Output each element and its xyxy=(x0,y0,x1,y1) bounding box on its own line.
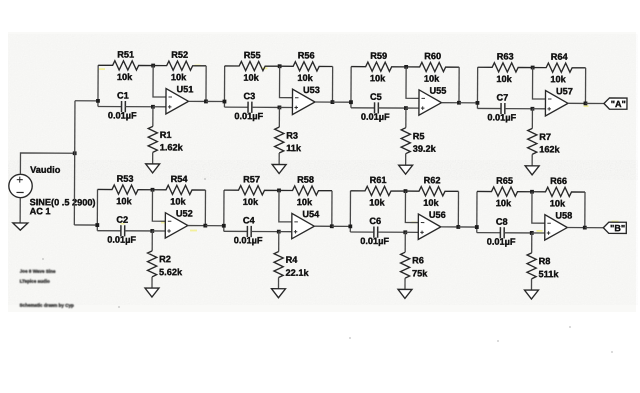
net flag "B" xyxy=(603,222,626,233)
svg-text:0.01µF: 0.01µF xyxy=(487,112,516,122)
svg-text:R57: R57 xyxy=(243,174,260,184)
wire: cap junction to U51 non-inverting input xyxy=(153,106,166,108)
node: input junction xyxy=(223,100,227,104)
svg-text:22.1k: 22.1k xyxy=(286,268,310,278)
svg-text:"B": "B" xyxy=(610,223,625,233)
svg-text:C7: C7 xyxy=(496,92,508,102)
wire: cap junction to U54 non-inverting input xyxy=(279,231,292,233)
svg-text:10k: 10k xyxy=(496,74,512,84)
wire: stage 2 output to stage 3 input (bottom row) xyxy=(332,225,350,227)
resistor R57 xyxy=(224,186,279,195)
svg-text:U54: U54 xyxy=(302,209,320,219)
node: C5/R5 junction xyxy=(404,106,408,110)
wire: stage 3 output to stage 4 input (bottom row) xyxy=(458,226,476,228)
node: C8/R8 junction xyxy=(530,231,534,235)
wire: feedback from output node to R56 xyxy=(331,66,333,102)
resistor R65 xyxy=(477,187,532,196)
svg-text:10k: 10k xyxy=(496,198,512,208)
svg-text:10k: 10k xyxy=(170,196,186,206)
svg-text:0.01µF: 0.01µF xyxy=(361,112,390,122)
svg-text:C8: C8 xyxy=(496,217,508,227)
node: C3/R3 junction xyxy=(278,106,282,110)
wire: feedback from output node to R54 xyxy=(204,190,206,226)
wire: R junction down to U53 inverting input xyxy=(279,66,292,97)
svg-text:U58: U58 xyxy=(555,210,572,220)
svg-text:10k: 10k xyxy=(243,197,259,207)
note text line 2 xyxy=(20,279,50,284)
wire: left branch vertical (R59/C5 input) xyxy=(350,67,352,108)
wire: U55 output xyxy=(441,102,458,104)
svg-text:R53: R53 xyxy=(117,174,134,184)
svg-text:U55: U55 xyxy=(430,86,447,96)
ground (R7) xyxy=(525,166,539,175)
resistor R53 xyxy=(97,185,152,194)
node: output junction xyxy=(330,224,334,228)
svg-text:C1: C1 xyxy=(117,90,129,100)
svg-text:R2: R2 xyxy=(159,254,171,264)
resistor R61 xyxy=(350,186,405,195)
node: R65/R66 junction xyxy=(530,190,534,194)
resistor R63 xyxy=(478,63,533,72)
svg-text:11k: 11k xyxy=(286,143,302,153)
note text line 1 xyxy=(20,268,56,273)
wire: feedback from output node to R64 xyxy=(584,68,586,104)
op-amp U56 xyxy=(418,214,441,240)
wire: feedback from output node to R58 xyxy=(331,191,333,227)
ground (R6) xyxy=(398,289,412,298)
voltage source Vaudio xyxy=(9,174,33,198)
svg-text:U57: U57 xyxy=(556,86,573,96)
node: input junction xyxy=(222,224,226,228)
svg-text:C6: C6 xyxy=(369,216,381,226)
node: input junction xyxy=(95,223,99,227)
node: R59/R60 junction xyxy=(404,65,408,69)
wire: left branch vertical (R65/C8 input) xyxy=(476,191,478,232)
svg-text:C2: C2 xyxy=(116,215,128,225)
capacitor C2 xyxy=(97,225,152,236)
wire: feedback from output node to R66 xyxy=(584,192,586,228)
svg-text:10k: 10k xyxy=(423,198,439,208)
node: R63/R64 junction xyxy=(531,66,535,70)
resistor R4 xyxy=(274,232,283,289)
svg-text:10k: 10k xyxy=(116,196,132,206)
wire: U58 output xyxy=(567,227,584,229)
svg-text:AC 1: AC 1 xyxy=(30,206,51,216)
svg-text:R62: R62 xyxy=(424,175,441,185)
node: C7/R7 junction xyxy=(531,107,535,111)
wire: R junction down to U58 inverting input xyxy=(532,192,545,223)
svg-text:162k: 162k xyxy=(539,144,560,154)
svg-text:10k: 10k xyxy=(171,72,187,82)
op-amp U51 xyxy=(166,89,189,115)
wire: U54 output xyxy=(314,225,331,227)
capacitor C3 xyxy=(224,102,279,113)
svg-text:R54: R54 xyxy=(171,174,189,184)
wire: left branch vertical (R57/C4 input) xyxy=(223,190,225,231)
svg-text:0.01µF: 0.01µF xyxy=(487,237,516,247)
svg-text:U52: U52 xyxy=(176,208,193,218)
capacitor C8 xyxy=(477,227,532,238)
svg-text:R60: R60 xyxy=(424,51,441,61)
wire: R junction down to U56 inverting input xyxy=(405,191,418,222)
svg-text:0.01µF: 0.01µF xyxy=(234,235,263,245)
resistor R55 xyxy=(225,61,280,70)
svg-text:R58: R58 xyxy=(297,175,314,185)
node: output junction xyxy=(204,100,208,104)
svg-text:R52: R52 xyxy=(171,50,188,60)
resistor R6 xyxy=(400,232,409,289)
svg-text:10k: 10k xyxy=(297,197,313,207)
ground (R1) xyxy=(146,164,160,173)
wire: cap junction to U57 non-inverting input xyxy=(532,108,545,110)
svg-text:R59: R59 xyxy=(370,51,387,61)
wire: feedback from output node to R60 xyxy=(458,67,460,103)
node: input junction xyxy=(348,224,352,228)
svg-text:Schematic drawn by Cyp: Schematic drawn by Cyp xyxy=(19,303,74,308)
svg-text:C3: C3 xyxy=(243,91,255,101)
capacitor C5 xyxy=(351,102,406,113)
svg-text:LTspice audio: LTspice audio xyxy=(20,279,50,284)
resistor R59 xyxy=(351,62,406,71)
note text line 3 xyxy=(19,303,74,308)
svg-text:R6: R6 xyxy=(412,255,424,265)
node: R61/R62 junction xyxy=(404,189,408,193)
wire: R junction down to U57 inverting input xyxy=(532,68,545,99)
svg-text:R4: R4 xyxy=(286,255,299,265)
wire: left branch vertical (R53/C2 input) xyxy=(96,189,98,230)
capacitor C4 xyxy=(224,226,279,237)
op-amp U57 xyxy=(545,91,568,117)
svg-text:Vaudio: Vaudio xyxy=(30,165,61,175)
resistor R8 xyxy=(527,233,536,290)
svg-text:U51: U51 xyxy=(177,84,194,94)
wire: stage 1 output to stage 2 input (top row) xyxy=(206,100,224,102)
svg-text:5.62k: 5.62k xyxy=(159,267,183,277)
wire: R junction down to U55 inverting input xyxy=(406,67,419,98)
wire: source negative terminal to ground xyxy=(19,198,21,223)
wire: U56 output xyxy=(441,226,458,228)
wire: left branch vertical (R55/C3 input) xyxy=(223,66,225,107)
svg-text:511k: 511k xyxy=(539,269,560,279)
svg-text:R61: R61 xyxy=(370,175,387,185)
node: R51/R52 junction xyxy=(151,64,155,68)
net flag "A" xyxy=(604,98,627,109)
svg-text:U53: U53 xyxy=(303,85,320,95)
wire: feedback from output node to R52 xyxy=(205,66,207,102)
wire: trunk to bottom row input xyxy=(74,224,97,226)
node: output junction xyxy=(203,224,207,228)
wire: R junction down to U51 inverting input xyxy=(153,66,166,97)
node: input junction xyxy=(476,101,480,105)
resistor R5 xyxy=(401,108,410,165)
wire: cap junction to U56 non-inverting input xyxy=(405,231,418,233)
wire: U57 output xyxy=(568,102,585,104)
resistor R3 xyxy=(275,107,284,164)
node: source/trunk junction xyxy=(73,151,77,155)
svg-text:10k: 10k xyxy=(369,197,385,207)
capacitor C6 xyxy=(350,226,405,237)
node: output junction xyxy=(456,225,460,229)
op-amp U53 xyxy=(292,89,315,115)
svg-text:R7: R7 xyxy=(539,132,551,142)
node: R57/R58 junction xyxy=(277,189,281,193)
resistor R2 xyxy=(147,231,156,288)
node: C4/R4 junction xyxy=(277,230,281,234)
svg-text:R1: R1 xyxy=(160,130,172,140)
svg-text:R65: R65 xyxy=(496,176,513,186)
node: output junction xyxy=(331,100,335,104)
op-amp U54 xyxy=(292,213,315,239)
wire: stage 3 output to stage 4 input (top row) xyxy=(459,102,477,104)
svg-text:10k: 10k xyxy=(243,73,259,83)
wire: U51 output xyxy=(188,100,205,102)
wire: cap junction to U55 non-inverting input xyxy=(406,107,419,109)
svg-text:10k: 10k xyxy=(424,74,440,84)
ground (R8) xyxy=(524,290,538,299)
node: R55/R56 junction xyxy=(278,64,282,68)
svg-text:1.62k: 1.62k xyxy=(160,142,184,152)
node: input junction xyxy=(475,225,479,229)
svg-text:10k: 10k xyxy=(370,73,386,83)
ground (R4) xyxy=(271,289,285,298)
wire: trunk to top row input xyxy=(75,100,98,102)
resistor R62 xyxy=(405,186,458,195)
svg-text:R51: R51 xyxy=(117,49,134,59)
wire: to net flag "B" xyxy=(585,227,603,229)
resistor R1 xyxy=(148,107,157,164)
wire: input trunk vertical xyxy=(73,101,76,225)
node: output junction xyxy=(584,102,588,106)
svg-text:C5: C5 xyxy=(370,92,382,102)
resistor R51 xyxy=(98,61,153,70)
wire: U53 output xyxy=(315,101,332,103)
svg-text:0.01µF: 0.01µF xyxy=(360,236,389,246)
resistor R54 xyxy=(152,185,205,194)
svg-text:10k: 10k xyxy=(297,73,313,83)
resistor R58 xyxy=(279,186,332,195)
svg-text:R66: R66 xyxy=(550,176,567,186)
resistor R52 xyxy=(153,61,206,70)
svg-text:R8: R8 xyxy=(539,256,551,266)
node: output junction xyxy=(457,101,461,105)
op-amp U55 xyxy=(419,90,442,116)
resistor R7 xyxy=(528,109,537,166)
resistor R56 xyxy=(280,62,333,71)
wire: source positive terminal up to trunk xyxy=(20,153,74,175)
ground (source) xyxy=(13,223,28,230)
wire: cap junction to U52 non-inverting input xyxy=(152,230,165,232)
wire: cap junction to U58 non-inverting input xyxy=(532,232,545,234)
capacitor C7 xyxy=(477,103,532,114)
wire: R junction down to U52 inverting input xyxy=(152,190,165,221)
svg-text:R5: R5 xyxy=(413,131,425,141)
svg-text:10k: 10k xyxy=(550,198,566,208)
svg-text:10k: 10k xyxy=(117,72,133,82)
wire: feedback from output node to R62 xyxy=(457,191,459,227)
wire: U52 output xyxy=(188,225,205,227)
capacitor C1 xyxy=(98,101,153,112)
svg-text:C4: C4 xyxy=(243,215,256,225)
svg-text:0.01µF: 0.01µF xyxy=(234,111,263,121)
svg-text:0.01µF: 0.01µF xyxy=(107,235,136,245)
svg-text:R3: R3 xyxy=(286,131,298,141)
resistor R66 xyxy=(532,187,585,196)
svg-text:0.01µF: 0.01µF xyxy=(108,110,137,120)
node: input junction xyxy=(96,99,100,103)
svg-text:R64: R64 xyxy=(551,52,569,62)
svg-text:R63: R63 xyxy=(497,51,514,61)
svg-text:39.2k: 39.2k xyxy=(413,144,437,154)
wire: left branch vertical (R51/C1 input) xyxy=(97,65,99,106)
svg-text:R55: R55 xyxy=(244,50,261,60)
wire: left branch vertical (R61/C6 input) xyxy=(349,191,351,232)
ground (R3) xyxy=(272,164,286,173)
node: C1/R1 junction xyxy=(151,105,155,109)
wire: R junction down to U54 inverting input xyxy=(279,190,292,221)
ground (R5) xyxy=(399,165,413,174)
svg-text:"A": "A" xyxy=(611,99,626,109)
svg-text:75k: 75k xyxy=(412,268,428,278)
node: C6/R6 junction xyxy=(403,230,407,234)
node: output junction xyxy=(583,226,587,230)
wire: to net flag "A" xyxy=(585,102,603,104)
node: input junction xyxy=(349,100,353,104)
svg-text:Joe 8 Wave Sine: Joe 8 Wave Sine xyxy=(20,268,56,273)
ground (R2) xyxy=(145,288,159,297)
svg-text:R56: R56 xyxy=(298,50,315,60)
svg-text:U56: U56 xyxy=(429,210,446,220)
svg-text:10k: 10k xyxy=(550,74,566,84)
wire: stage 1 output to stage 2 input (bottom row) xyxy=(205,225,223,227)
node: R53/R54 junction xyxy=(151,188,155,192)
node: C2/R2 junction xyxy=(150,229,154,233)
op-amp U52 xyxy=(165,213,188,239)
resistor R64 xyxy=(533,63,586,72)
wire: stage 2 output to stage 3 input (top row) xyxy=(332,101,350,103)
wire: left branch vertical (R63/C7 input) xyxy=(476,67,478,108)
op-amp U58 xyxy=(545,215,568,241)
resistor R60 xyxy=(406,62,459,71)
wire: cap junction to U53 non-inverting input xyxy=(279,106,292,108)
